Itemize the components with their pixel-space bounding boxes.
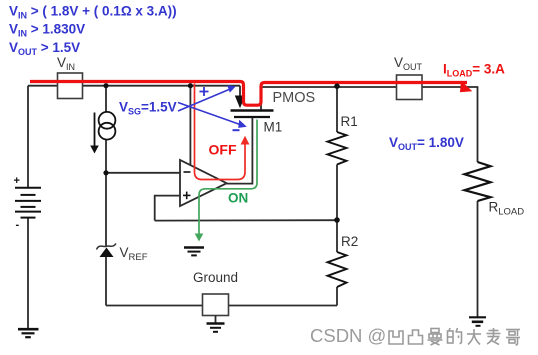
wire: left rail down to battery <box>27 86 29 187</box>
battery source <box>15 188 41 218</box>
svg-text:PMOS: PMOS <box>273 90 316 106</box>
svg-text:Ground: Ground <box>193 270 238 285</box>
red OFF arrowhead <box>241 136 250 145</box>
wire: VIN rail black left segment <box>28 85 240 87</box>
blue arrow to gate <box>178 103 240 125</box>
red load current path <box>30 82 467 106</box>
svg-text:+: + <box>14 175 20 187</box>
glyph de <box>448 328 462 344</box>
resistor R2 zigzag <box>328 252 347 287</box>
svg-text:VIN > ( 1.8V + ( 0.1Ω x 3.A)): VIN > ( 1.8V + ( 0.1Ω x 3.A)) <box>9 4 177 21</box>
blue minus mark near gate <box>233 129 240 131</box>
wire: feedback wire to R1 R2 node <box>155 219 337 221</box>
op-amp U1 <box>180 160 227 206</box>
glyph ao (concave) <box>389 331 403 344</box>
svg-text:-: - <box>16 219 20 231</box>
current source I1 <box>99 112 116 129</box>
junction node: rail to R1 <box>334 83 340 89</box>
green ON arrowhead <box>195 234 204 242</box>
blue plus mark near source <box>200 91 209 93</box>
ground under RLOAD <box>469 317 486 326</box>
watermark chinese glyphs <box>389 328 520 345</box>
svg-text:ON: ON <box>228 191 248 206</box>
ground under battery <box>18 329 39 337</box>
svg-text:VSG=1.5V: VSG=1.5V <box>119 100 177 117</box>
wire: vref node to opamp minus input <box>106 172 180 174</box>
glyph man <box>428 329 443 346</box>
glyph tu (convex) <box>409 330 423 344</box>
wire: bottom rail <box>106 305 337 307</box>
glyph ge <box>506 330 520 346</box>
wire: battery to ground <box>27 218 29 329</box>
junction node: vref to minus input <box>103 170 108 175</box>
resistor R1 zigzag <box>328 132 347 165</box>
junction node: rail to opamp supply <box>188 83 193 88</box>
wire: PMOS drain connection <box>260 87 262 110</box>
ground below op-amp <box>184 248 204 256</box>
wire: current source to zener to bottom rail <box>105 140 107 247</box>
VOUT box <box>397 75 423 100</box>
wire: opamp plus input stub <box>155 196 180 221</box>
glyph da <box>467 329 481 345</box>
glyph biao <box>487 328 501 345</box>
green ON path <box>199 120 257 235</box>
blue arrow to source <box>178 90 229 112</box>
op-amp minus input mark <box>184 171 191 173</box>
PMOS M1 source bar <box>231 109 274 112</box>
current source arrow <box>94 113 96 147</box>
wire: current source branch top <box>105 86 107 113</box>
wire: RLOAD bottom to ground <box>477 201 479 317</box>
op-amp plus input mark <box>183 194 191 196</box>
resistor RLOAD zigzag <box>465 162 491 201</box>
wire: R1 branch top <box>336 86 338 132</box>
svg-text:OFF: OFF <box>209 142 237 158</box>
ground stub below Ground box <box>215 316 217 324</box>
PMOS source arrow <box>235 96 245 109</box>
wire: PMOS source connection <box>239 86 241 98</box>
Ground box <box>203 294 229 316</box>
wire: opamp supply from rail <box>189 86 191 168</box>
svg-text:M1: M1 <box>264 120 283 135</box>
ground symbol below Ground box <box>207 324 225 332</box>
svg-text:R1: R1 <box>341 114 358 129</box>
VIN box <box>58 73 83 99</box>
red ILOAD arrowhead <box>460 81 472 93</box>
svg-text:CSDN @: CSDN @ <box>310 325 386 346</box>
red OFF path <box>195 84 246 180</box>
wire: R2 bottom to bottom rail <box>336 287 338 306</box>
wire: VOUT rail black right segment <box>261 87 478 162</box>
wire: R1 bottom to node <box>336 165 338 253</box>
wire: opamp output to PMOS gate <box>227 118 253 184</box>
junction node: rail to current source <box>103 83 108 88</box>
PMOS M1 gate bar <box>234 116 270 118</box>
zener diode VREF <box>100 248 114 258</box>
svg-text:R2: R2 <box>341 234 358 249</box>
junction node: R1 R2 feedback <box>334 217 340 223</box>
